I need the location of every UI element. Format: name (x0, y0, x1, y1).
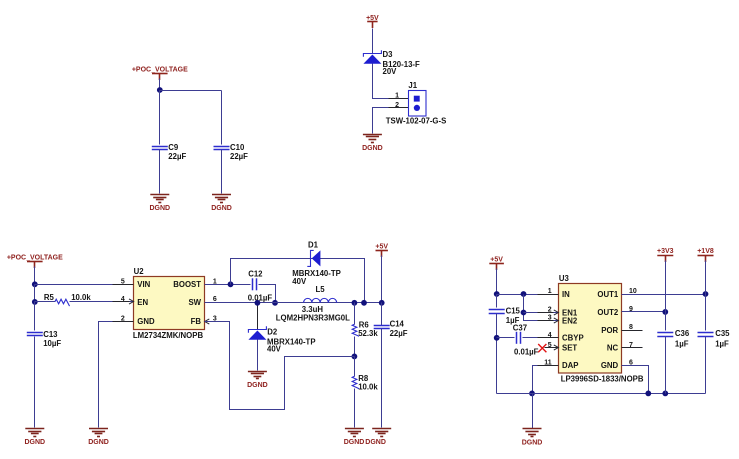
svg-text:20V: 20V (383, 67, 398, 76)
svg-text:C36: C36 (675, 329, 690, 338)
wire (34, 267, 36, 285)
node junction (521, 291, 527, 297)
svg-text:6: 6 (213, 296, 217, 303)
ground DGND (365, 429, 391, 447)
ground DGND (362, 135, 383, 153)
pin stub FB (210, 321, 226, 323)
svg-text:SET: SET (562, 344, 577, 353)
wire (665, 312, 667, 331)
wire OUT1 net (622, 294, 706, 296)
power +1V8 (697, 248, 714, 262)
wire (381, 256, 383, 303)
svg-text:D2: D2 (267, 327, 278, 336)
wire (354, 357, 356, 377)
wire (160, 90, 222, 92)
pin stub EN1 (538, 312, 554, 314)
wire EN branch (524, 295, 559, 321)
svg-text:GND: GND (601, 361, 619, 370)
svg-text:40V: 40V (292, 277, 307, 286)
power +3V3 (657, 248, 674, 262)
svg-text:+POC_VOLTAGE: +POC_VOLTAGE (7, 255, 63, 262)
svg-text:22µF: 22µF (230, 152, 248, 161)
wire SW net (205, 302, 382, 304)
pin stub SW (205, 302, 226, 304)
resistor R6 (352, 324, 359, 336)
svg-text:40V: 40V (267, 344, 282, 353)
pin stub OUT1 (622, 294, 643, 296)
wire (221, 150, 223, 194)
wire (705, 295, 707, 331)
wire (381, 303, 383, 326)
wire EN1 (524, 312, 559, 314)
wire OUT2 net (622, 311, 666, 313)
wire (532, 394, 534, 429)
wire (705, 261, 707, 295)
pin stub BOOST (205, 284, 226, 286)
svg-text:1: 1 (395, 93, 399, 100)
wire GND pin of U2 (99, 322, 134, 428)
svg-text:DGND: DGND (149, 205, 170, 212)
ground DGND (211, 195, 232, 213)
wire VIN net (35, 284, 134, 286)
pin arrow EN1 (554, 310, 559, 315)
node junction (255, 300, 261, 306)
diode D1 (307, 250, 320, 266)
svg-text:SW: SW (188, 298, 201, 307)
wire (354, 389, 356, 428)
inductor L5 (304, 298, 337, 302)
capacitor C9 (152, 147, 168, 150)
svg-text:BOOST: BOOST (173, 280, 201, 289)
wire FB net (205, 322, 355, 410)
wire (665, 261, 667, 312)
capacitor C13 (27, 333, 43, 336)
svg-text:22µF: 22µF (390, 329, 408, 338)
wire (496, 295, 498, 308)
wire (34, 302, 36, 331)
svg-text:C37: C37 (513, 324, 527, 333)
ground DGND (88, 429, 109, 447)
pin stub EN (113, 301, 130, 303)
wire bottom ground bus (497, 393, 706, 395)
svg-text:C15: C15 (506, 307, 521, 316)
svg-text:10: 10 (629, 288, 637, 295)
ground DGND (344, 429, 365, 447)
svg-text:2: 2 (395, 102, 399, 109)
wire (159, 79, 161, 91)
svg-text:EN: EN (137, 298, 148, 307)
svg-text:DGND: DGND (522, 440, 543, 447)
wire (373, 108, 409, 134)
pin stub SET (545, 347, 559, 349)
pin stub OUT2 (622, 311, 643, 313)
svg-text:FB: FB (191, 317, 202, 326)
wire (221, 91, 223, 145)
svg-text:C35: C35 (715, 329, 730, 338)
power +POC_VOLTAGE (left) (7, 255, 63, 269)
wire (257, 340, 259, 371)
pin stub EN2 (538, 320, 554, 322)
svg-text:+3V3: +3V3 (657, 248, 674, 255)
node junction (521, 310, 527, 316)
capacitor C14 (374, 326, 390, 329)
svg-text:J1: J1 (408, 81, 417, 90)
wire (34, 337, 36, 428)
wire (373, 64, 409, 99)
pin stub GND6 (622, 365, 643, 367)
capacitor C36 (657, 333, 673, 337)
pin stub NC (622, 347, 643, 349)
wire IN net (497, 294, 559, 296)
svg-text:D3: D3 (383, 50, 394, 59)
connector J1 (409, 91, 427, 117)
wire (34, 285, 36, 302)
resistor R8 (352, 376, 359, 388)
wire (372, 29, 374, 54)
node junction (662, 391, 668, 397)
node junction (379, 300, 385, 306)
svg-text:DGND: DGND (247, 382, 268, 389)
pin arrow EN (129, 299, 134, 304)
svg-text:0.01µF: 0.01µF (248, 294, 273, 303)
wire CBYP (523, 337, 559, 339)
wire (159, 150, 161, 194)
svg-text:EN2: EN2 (562, 317, 578, 326)
svg-text:C14: C14 (390, 319, 405, 328)
pin arrow EN2 (554, 318, 559, 323)
svg-text:OUT1: OUT1 (597, 290, 618, 299)
capacitor C37 (517, 332, 521, 344)
ground DGND (522, 429, 543, 447)
pin stub CBYP (538, 337, 559, 339)
ground DGND (24, 429, 45, 447)
pin stub J1.2 (389, 107, 409, 109)
node junction (32, 299, 38, 305)
no-connect X on SET pin (538, 344, 546, 352)
node junction (228, 281, 234, 287)
capacitor C10 (214, 147, 230, 150)
wire DAP (533, 366, 559, 394)
svg-text:+5V: +5V (375, 243, 388, 250)
svg-text:DGND: DGND (88, 439, 109, 446)
svg-text:5: 5 (548, 342, 552, 349)
svg-text:DAP: DAP (562, 361, 578, 370)
pin stub J1.1 (389, 98, 409, 100)
svg-text:52.3k: 52.3k (358, 329, 378, 338)
svg-text:CBYP: CBYP (562, 334, 584, 343)
svg-text:DGND: DGND (362, 145, 383, 152)
pin stub IN (538, 294, 559, 296)
svg-text:10.0k: 10.0k (358, 383, 378, 392)
wire (354, 303, 356, 325)
wire to C37 (497, 337, 515, 339)
pin arrow FB (205, 319, 210, 324)
wire BOOST (205, 284, 251, 286)
node junction (645, 391, 651, 397)
svg-text:+1V8: +1V8 (697, 248, 714, 255)
capacitor C35 (698, 333, 714, 337)
svg-text:+5V: +5V (490, 257, 503, 264)
svg-text:DGND: DGND (365, 439, 386, 446)
node junction (352, 300, 358, 306)
svg-text:L5: L5 (316, 285, 326, 294)
svg-text:22µF: 22µF (168, 152, 186, 161)
svg-text:C12: C12 (248, 269, 263, 278)
pin arrow SET (554, 345, 559, 350)
resistor R5 (55, 299, 70, 306)
wire (35, 301, 56, 303)
diode D2 (248, 326, 266, 339)
pin stub DAP (538, 365, 559, 367)
IC U3 LP3996SD-1833/NOPB (559, 284, 622, 374)
svg-text:TSW-102-07-G-S: TSW-102-07-G-S (386, 116, 447, 125)
svg-text:1µF: 1µF (675, 339, 689, 348)
wire (159, 91, 161, 145)
wire (705, 337, 707, 394)
ground DGND (247, 372, 268, 389)
svg-text:10µF: 10µF (43, 339, 61, 348)
node junction (662, 309, 668, 315)
svg-text:0.01µF: 0.01µF (514, 348, 539, 357)
node junction (529, 391, 535, 397)
power +5V (top) (366, 15, 379, 28)
ground DGND (149, 195, 170, 213)
wire (259, 285, 276, 303)
node junction (352, 354, 358, 360)
node junction (272, 300, 278, 306)
svg-text:IN: IN (562, 290, 570, 299)
svg-text:D1: D1 (308, 240, 319, 249)
svg-text:LP3996SD-1833/NOPB: LP3996SD-1833/NOPB (561, 375, 644, 384)
svg-text:R5: R5 (44, 293, 55, 302)
svg-text:LM2734ZMK/NOPB: LM2734ZMK/NOPB (133, 331, 204, 340)
svg-text:C10: C10 (230, 143, 245, 152)
svg-text:NC: NC (607, 344, 619, 353)
wire (665, 337, 667, 394)
node junction (494, 335, 500, 341)
svg-text:POR: POR (601, 326, 618, 335)
wire (496, 269, 498, 295)
wire boost strap top (231, 259, 365, 303)
power +5V (right) (489, 257, 504, 270)
svg-text:+POC_VOLTAGE: +POC_VOLTAGE (132, 67, 188, 74)
capacitor C12 (253, 278, 257, 290)
svg-text:LQM2HPN3R3MG0L: LQM2HPN3R3MG0L (276, 313, 350, 322)
svg-text:OUT2: OUT2 (597, 308, 618, 317)
power +POC_VOLTAGE (top) (132, 67, 188, 81)
wire (381, 329, 383, 428)
svg-text:DGND: DGND (211, 205, 232, 212)
wire (496, 314, 498, 394)
pin stub GND (113, 321, 134, 323)
svg-text:C13: C13 (43, 330, 58, 339)
svg-text:VIN: VIN (137, 280, 150, 289)
node junction (494, 291, 500, 297)
wire GND pin (622, 366, 649, 394)
svg-text:DGND: DGND (24, 439, 45, 446)
svg-text:DGND: DGND (344, 439, 365, 446)
node junction (32, 281, 38, 287)
power +5V (mid) (375, 243, 388, 257)
IC U2 LM2734ZMK/NOPB (134, 277, 205, 330)
pin stub VIN (113, 284, 134, 286)
wire (70, 301, 134, 303)
svg-text:10.0k: 10.0k (71, 293, 91, 302)
svg-text:U2: U2 (134, 267, 145, 276)
wire D2 drop (257, 303, 259, 330)
pin stub POR (622, 330, 643, 332)
node junction (703, 291, 709, 297)
node junction (157, 87, 163, 93)
svg-text:1: 1 (548, 288, 552, 295)
svg-text:1µF: 1µF (715, 339, 729, 348)
svg-text:GND: GND (137, 317, 155, 326)
svg-text:U3: U3 (559, 274, 570, 283)
diode D3 (363, 50, 381, 63)
wire (354, 337, 356, 357)
node junction (361, 300, 367, 306)
svg-text:C9: C9 (168, 143, 179, 152)
capacitor C15 (489, 310, 505, 314)
